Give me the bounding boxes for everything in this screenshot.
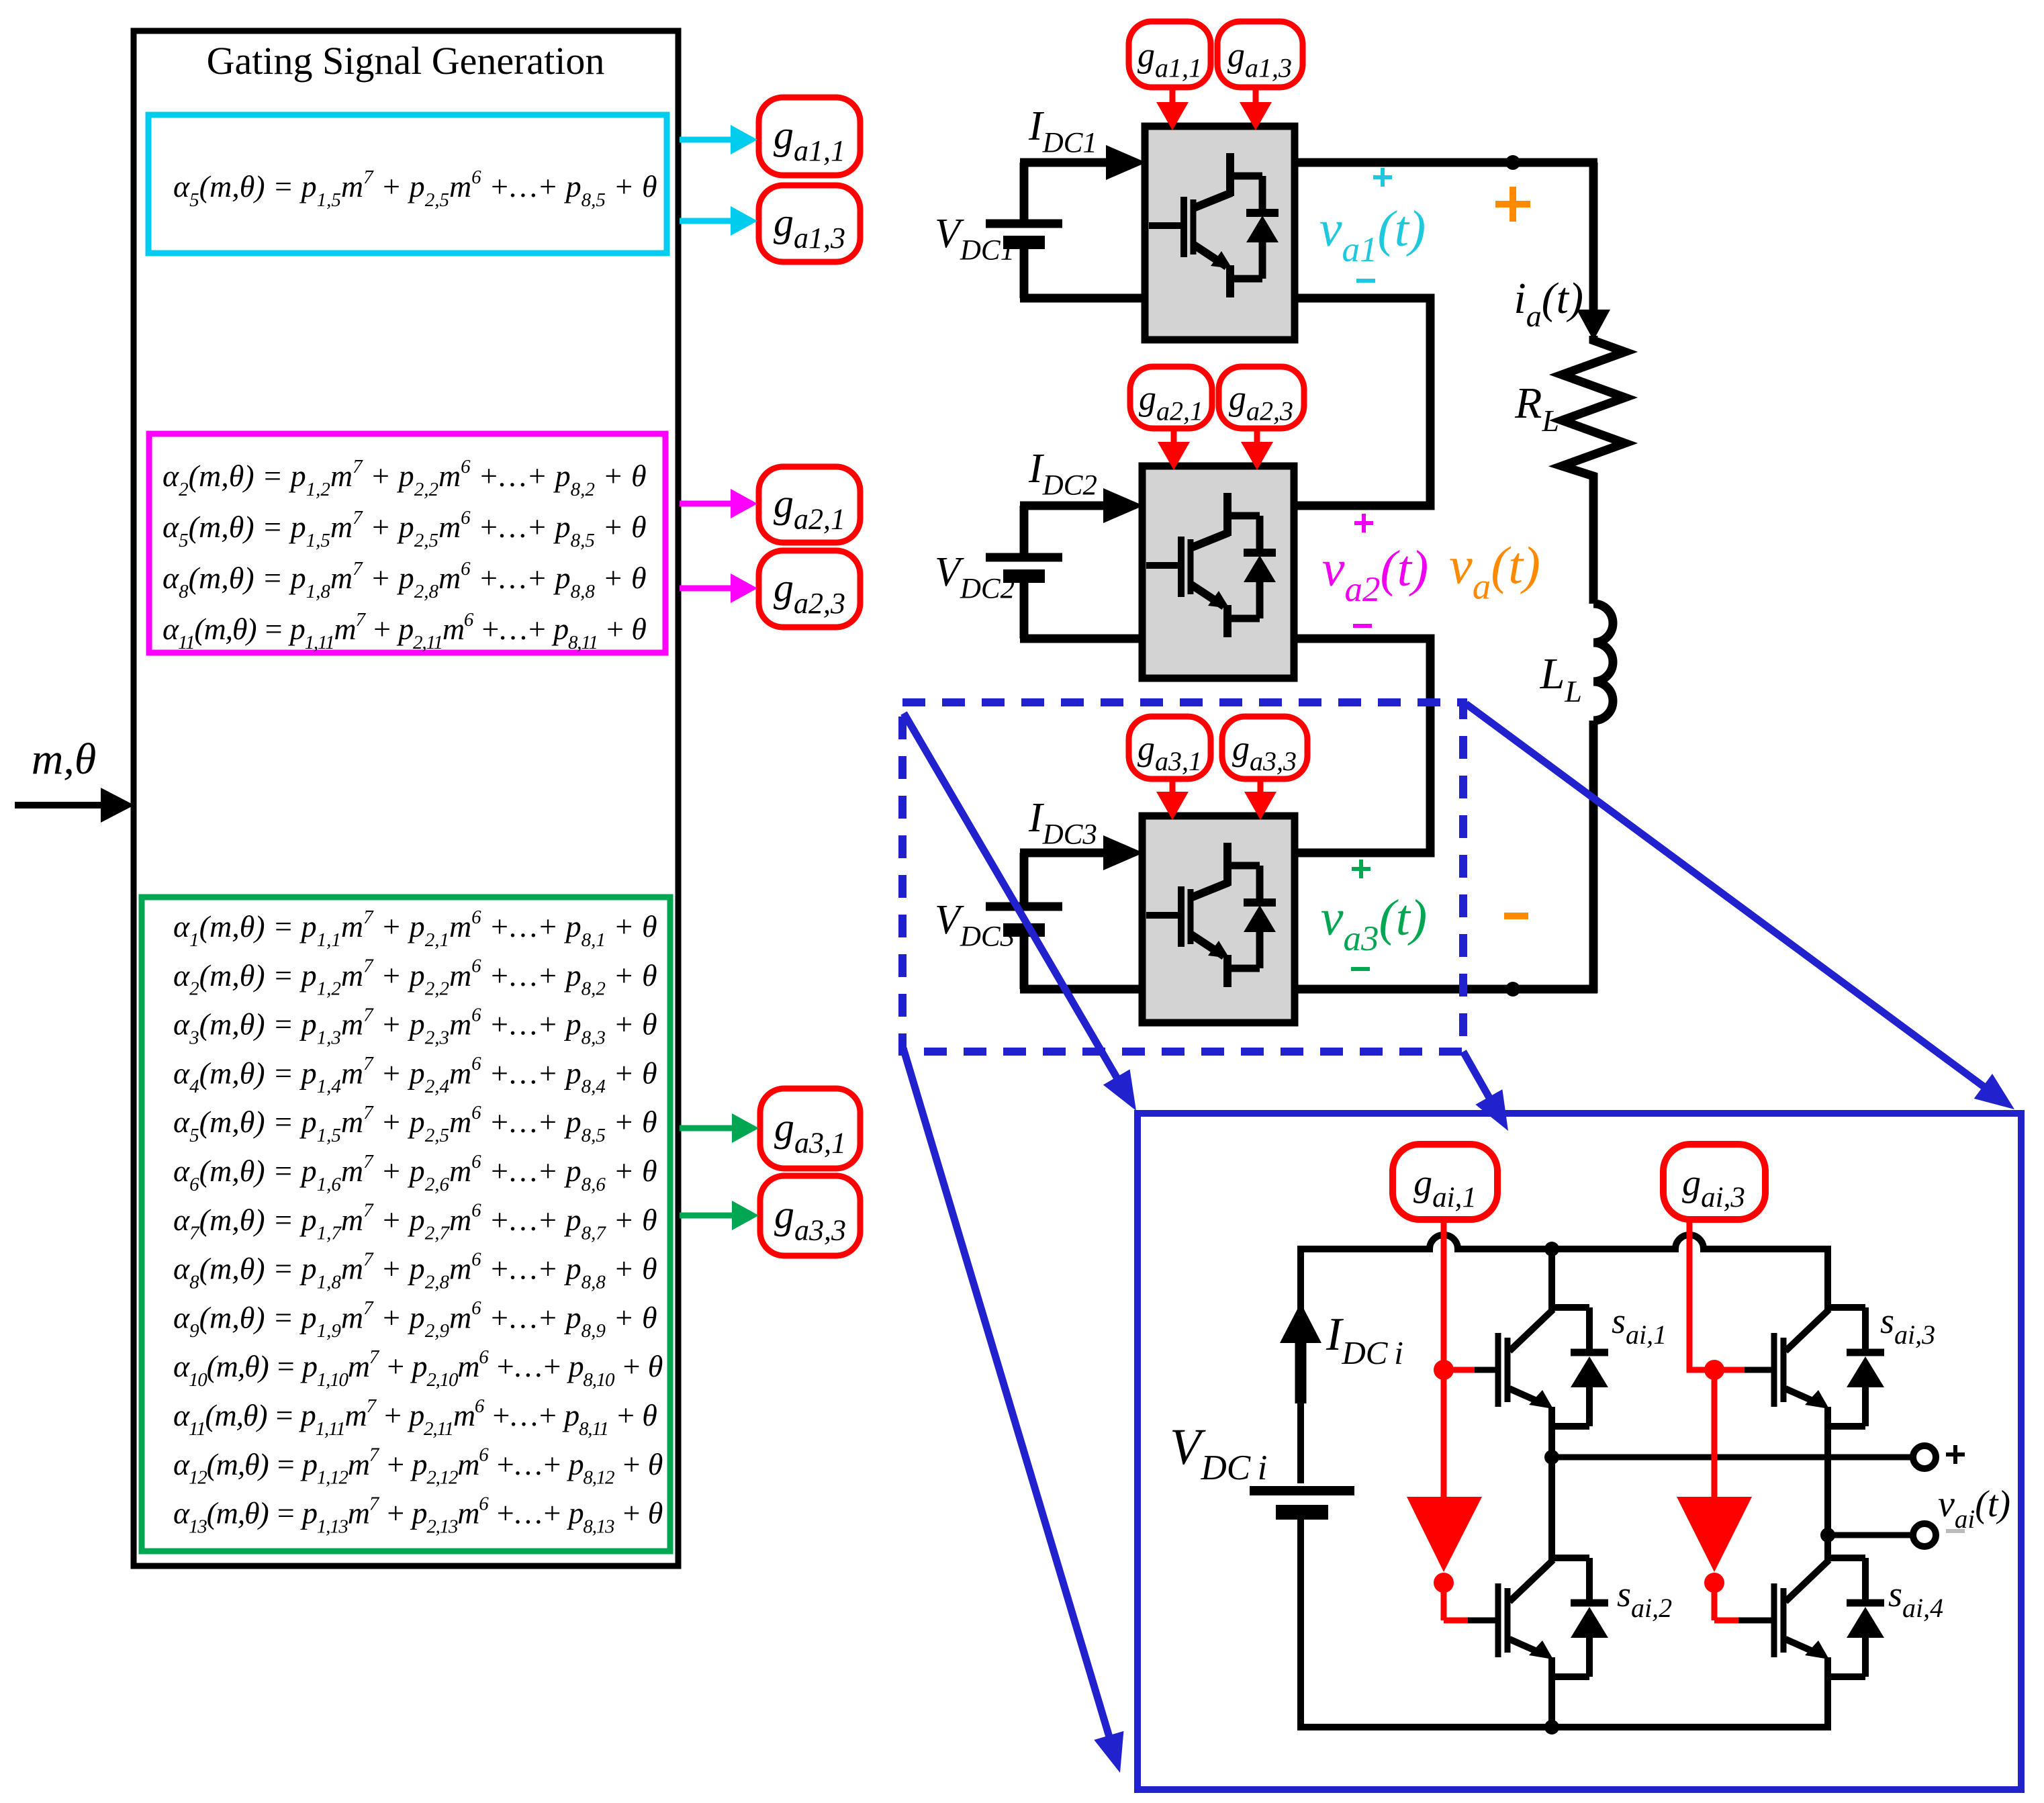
node g_a3,1 label box [1129, 716, 1211, 779]
red arrow g_a1,1 [1170, 85, 1176, 106]
converter cell 2 gray box [1142, 466, 1294, 678]
terminal v_ai plus [1913, 1446, 1936, 1469]
wire conv1 bottom to conv2 top [1294, 298, 1430, 506]
converter cell 3 IGBT symbol [1223, 843, 1232, 886]
inductor L_L [1593, 604, 1613, 721]
magenta equation box [149, 434, 665, 653]
node terminal bottom [1505, 982, 1520, 997]
blue arrow dashed TL to detail box [904, 713, 1119, 1080]
diode of s_ai,2 [1552, 1555, 1589, 1561]
node g_a1,1 label box [1129, 21, 1211, 87]
red arrow g_a2,1 [1171, 426, 1177, 446]
cyan arrow to g_a1,1 [680, 137, 735, 143]
node red gate junction 3 [1704, 1360, 1724, 1380]
label plus terminal v_ai [1953, 1445, 1957, 1464]
wire L to bottom [1589, 721, 1598, 993]
input arrow [15, 802, 105, 808]
node top bus junction [1544, 1242, 1559, 1256]
red driver triangle 2 [1677, 1497, 1752, 1572]
wire left leg to s_ai,2 [1548, 1457, 1555, 1561]
label minus magenta v_a2 [1353, 624, 1372, 628]
label plus orange top [1509, 187, 1516, 222]
gating signal generation panel [134, 31, 678, 1566]
node right leg output [1820, 1528, 1835, 1542]
green equation box [142, 897, 670, 1551]
node terminal top [1505, 155, 1520, 170]
wire bottom DC bus [1301, 1724, 1828, 1730]
blue arrow dashed BR to detail box [1463, 1052, 1491, 1101]
converter cell 1 IGBT symbol [1226, 153, 1234, 196]
V_DC1 battery [986, 220, 1062, 228]
magenta arrow to g_a2,1 [680, 501, 735, 507]
transistor s_ai,2 [1495, 1583, 1501, 1657]
wire I_DC1 top [1020, 163, 1029, 220]
node bottom bus junction [1544, 1720, 1559, 1735]
node g_a2,1 output box [759, 467, 860, 543]
red arrow g_a3,3 [1258, 776, 1264, 796]
wire R to L [1589, 476, 1598, 604]
wire left leg emitter s_ai,2 to bottom bus [1548, 1657, 1555, 1727]
dashed blue highlight box around converter 3 [902, 702, 1463, 1052]
transistor s_ai,4 [1771, 1583, 1777, 1657]
node g_a3,3 output box [760, 1176, 860, 1256]
wire top DC bus with hops [1301, 1235, 1828, 1249]
red gate wire g_ai,1 [1441, 1219, 1447, 1370]
node g_ai,1 label box [1393, 1144, 1497, 1219]
red arrow g_a1,3 [1253, 85, 1259, 106]
label minus cyan v_a1 [1356, 279, 1375, 283]
svg-text:m,θ: m,θ [32, 735, 97, 784]
converter cell 3 gray box [1142, 816, 1295, 1023]
label plus green v_a3 [1359, 860, 1363, 878]
red arrow g_a2,3 [1254, 426, 1260, 446]
red gate wire g_ai,3 [1689, 1219, 1714, 1370]
node g_a1,3 output box [759, 185, 860, 262]
converter cell 1 gray box [1145, 126, 1295, 340]
label plus cyan v_a1 [1381, 168, 1385, 187]
terminal v_ai minus [1913, 1524, 1936, 1546]
node g_a3,1 output box [760, 1089, 860, 1168]
blue arrow dashed BL to detail box [904, 1050, 1110, 1739]
I_DCi arrow up [1295, 1343, 1307, 1403]
svg-text:Gating Signal Generation: Gating Signal Generation [207, 39, 605, 83]
wire right leg emitter s_ai,3 to node [1824, 1407, 1831, 1535]
wire output mid bus [1552, 1454, 1914, 1461]
label plus magenta v_a2 [1362, 514, 1366, 533]
green arrow to g_a3,1 [680, 1125, 736, 1131]
V_DC2 battery [986, 553, 1062, 562]
wire right leg to s_ai,4 [1824, 1535, 1831, 1561]
magenta arrow to g_a2,3 [680, 586, 735, 592]
node g_a2,1 label box [1130, 367, 1212, 428]
converter cell 2 IGBT symbol [1223, 493, 1232, 536]
current direction arrow i_a [1589, 306, 1598, 314]
node g_a2,3 output box [759, 551, 860, 627]
label minus terminal v_ai [1946, 1529, 1965, 1533]
cyan alpha5 equation box [148, 115, 667, 253]
wire conv1 out top [1295, 158, 1597, 167]
detailed H-bridge blue box [1137, 1113, 2021, 1790]
node g_a1,1 output box [759, 97, 860, 175]
label minus orange bottom [1504, 913, 1528, 919]
resistor R_L [1562, 336, 1625, 479]
wire right leg collector s_ai,3 [1824, 1246, 1831, 1311]
wire left leg emitter s_ai,1 to mid [1548, 1407, 1555, 1457]
transistor s_ai,3 [1771, 1333, 1777, 1407]
wire conv2 bottom to conv3 top [1294, 639, 1430, 853]
wire battery bottom to cell 2 [1020, 582, 1029, 639]
diode of s_ai,1 [1552, 1304, 1589, 1311]
wire left DC rail upper [1297, 1246, 1304, 1483]
node g_a3,3 label box [1222, 716, 1307, 779]
wire right leg emitter s_ai,4 to bottom bus [1824, 1657, 1831, 1730]
battery V_DCi [1250, 1486, 1354, 1495]
wire I_DC2 top [1020, 506, 1029, 553]
red driver line to triangle 1 [1441, 1370, 1447, 1497]
red driver line to triangle 2 [1712, 1370, 1718, 1497]
red arrow g_a3,1 [1170, 776, 1176, 796]
green arrow to g_a3,3 [680, 1213, 736, 1219]
label minus green v_a3 [1351, 967, 1370, 971]
wire left leg collector s_ai,1 [1548, 1249, 1555, 1311]
wire conv3 out bottom [1295, 985, 1597, 994]
transistor s_ai,1 [1495, 1333, 1501, 1407]
node g_a2,3 label box [1219, 367, 1304, 428]
wire load right vertical top [1589, 163, 1598, 316]
V_DC3 battery [986, 903, 1062, 911]
blue arrow dashed TR to detail box [1466, 704, 1986, 1089]
node g_a1,3 label box [1217, 21, 1303, 87]
diode of s_ai,3 [1828, 1304, 1865, 1311]
wire battery bottom to cell 1 [1020, 248, 1029, 298]
diode of s_ai,4 [1828, 1555, 1865, 1561]
wire output lower terminal [1828, 1532, 1914, 1538]
node g_ai,3 label box [1663, 1144, 1765, 1219]
wire left DC rail lower [1297, 1518, 1304, 1730]
wire battery bottom to cell 3 [1020, 936, 1029, 989]
red driver triangle 1 [1407, 1497, 1482, 1572]
cyan arrow to g_a1,3 [680, 218, 735, 224]
node red gate junction 1 [1434, 1360, 1454, 1380]
wire I_DC3 top [1020, 853, 1029, 903]
node mid left leg [1544, 1450, 1559, 1465]
